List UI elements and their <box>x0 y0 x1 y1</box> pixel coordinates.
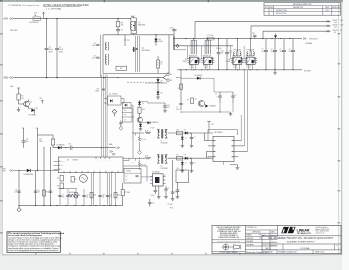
svg-text:C?: C? <box>124 119 126 121</box>
svg-text:22uF: 22uF <box>280 51 283 53</box>
svg-text:T? 750311880: T? 750311880 <box>233 49 242 51</box>
svg-text:C? 1uF: C? 1uF <box>150 128 154 130</box>
svg-text:D?: D? <box>184 129 186 131</box>
svg-text:R8: R8 <box>252 33 254 35</box>
svg-text:4.7uF: 4.7uF <box>59 49 63 51</box>
svg-text:C14: C14 <box>221 51 224 53</box>
svg-text:0.1uF: 0.1uF <box>92 45 96 47</box>
svg-text:C?: C? <box>289 49 291 51</box>
svg-text:R12: R12 <box>78 194 81 196</box>
svg-text:R10: R10 <box>46 191 49 193</box>
svg-text:R6: R6 <box>39 139 41 141</box>
svg-text:10/17: 10/17 <box>325 10 329 12</box>
svg-text:LT8302: LT8302 <box>126 171 131 173</box>
svg-text:LT8302: LT8302 <box>182 61 187 63</box>
svg-text:C7: C7 <box>38 189 40 191</box>
svg-text:SHEET 1 OF 1: SHEET 1 OF 1 <box>315 252 324 254</box>
svg-text:U4: U4 <box>185 59 187 61</box>
svg-text:1uF: 1uF <box>14 192 17 194</box>
svg-text:C? 1uF: C? 1uF <box>190 65 194 67</box>
svg-text:1uF: 1uF <box>221 53 224 55</box>
svg-text:1uF: 1uF <box>167 107 170 109</box>
svg-text:VOUT2: VOUT2 <box>333 25 338 27</box>
svg-text:C14 1uF: C14 1uF <box>216 48 222 50</box>
svg-text:22uF: 22uF <box>271 51 274 53</box>
svg-text:C? 1uF: C? 1uF <box>204 67 208 69</box>
svg-text:R?: R? <box>177 155 179 157</box>
svg-text:U6: U6 <box>228 59 230 61</box>
svg-text:BSC320N20: BSC320N20 <box>142 50 151 52</box>
svg-text:C? 1uF: C? 1uF <box>246 67 250 69</box>
svg-text:10/18/17: 10/18/17 <box>271 241 276 243</box>
svg-text:1uF: 1uF <box>38 192 41 194</box>
svg-text:DWG. NO.: DWG. NO. <box>271 245 278 247</box>
svg-text:PRODUCTION: PRODUCTION <box>276 10 288 12</box>
svg-text:ISOLATED POWER SUPPLY: ISOLATED POWER SUPPLY <box>287 241 316 244</box>
svg-text:C5: C5 <box>175 30 177 32</box>
svg-text:VOUT3: VOUT3 <box>333 30 338 32</box>
svg-text:R11: R11 <box>120 68 123 70</box>
svg-text:PS2801: PS2801 <box>113 93 118 95</box>
svg-text:C?: C? <box>132 162 134 164</box>
svg-text:22uF: 22uF <box>289 51 292 53</box>
svg-text:Z?: Z? <box>185 163 187 165</box>
svg-text:REV: REV <box>336 245 339 247</box>
svg-text:R?: R? <box>187 100 189 102</box>
svg-text:R?: R? <box>126 176 128 178</box>
svg-text:C?: C? <box>132 136 134 138</box>
svg-text:U5: U5 <box>199 59 201 61</box>
svg-text:R7: R7 <box>57 178 59 180</box>
svg-text:CHECKED: CHECKED <box>246 238 253 240</box>
svg-text:C?: C? <box>271 49 273 51</box>
svg-text:+VIN: +VIN <box>3 19 9 21</box>
svg-text:D7: D7 <box>161 80 163 82</box>
svg-text:R? 1k: R? 1k <box>170 208 174 210</box>
svg-text:1uF: 1uF <box>26 141 29 143</box>
svg-text:R? 7.5k: R? 7.5k <box>141 139 146 141</box>
svg-text:R? 10: R? 10 <box>145 130 149 132</box>
svg-text:U7: U7 <box>242 59 244 61</box>
svg-text:C?: C? <box>194 137 196 139</box>
svg-text:2.2uF: 2.2uF <box>169 27 173 29</box>
svg-text:C12: C12 <box>96 88 99 90</box>
svg-text:C?: C? <box>280 49 282 51</box>
svg-text:LT8330: LT8330 <box>226 61 231 63</box>
svg-text:C21: C21 <box>152 202 155 204</box>
svg-text:4.7uF: 4.7uF <box>49 49 53 51</box>
svg-text:C? 1uF: C? 1uF <box>233 67 237 69</box>
svg-text:22uF: 22uF <box>262 51 265 53</box>
svg-text:220pF: 220pF <box>95 91 99 93</box>
svg-text:C? 1uF: C? 1uF <box>204 65 208 67</box>
svg-text:1uF: 1uF <box>62 196 64 198</box>
svg-text:R14: R14 <box>117 194 120 196</box>
svg-text:LT3748: LT3748 <box>73 159 78 161</box>
svg-text:TP2: TP2 <box>127 40 130 42</box>
svg-text:C9: C9 <box>94 55 96 57</box>
svg-text:C3: C3 <box>26 139 28 141</box>
svg-text:C?: C? <box>262 49 264 51</box>
svg-text:Q3: Q3 <box>30 101 32 103</box>
svg-text:R?: R? <box>124 110 126 112</box>
svg-text:C13: C13 <box>167 105 170 107</box>
svg-text:T2: T2 <box>161 141 163 143</box>
svg-text:C10: C10 <box>69 143 72 145</box>
svg-text:U1: U1 <box>67 159 69 161</box>
svg-text:0.1uF: 0.1uF <box>92 58 96 60</box>
svg-text:4.7uF: 4.7uF <box>215 96 218 98</box>
svg-text:R13: R13 <box>93 194 96 196</box>
svg-text:R? 196k: R? 196k <box>125 192 130 194</box>
svg-text:U9: U9 <box>177 168 179 170</box>
svg-text:N/A - POWERED 75W WITH 15V, -1: N/A - POWERED 75W WITH 15V, -15V AND 5V … <box>268 237 334 240</box>
svg-text:TP?: TP? <box>211 124 214 126</box>
svg-text:Z?: Z? <box>185 138 187 140</box>
svg-text:EN/UVLO: EN/UVLO <box>61 161 66 163</box>
svg-text:VOUT4 5V: VOUT4 5V <box>309 38 318 40</box>
svg-text:C17: C17 <box>86 194 89 196</box>
svg-text:R?: R? <box>124 115 126 117</box>
svg-text:C? 1uF: C? 1uF <box>190 67 194 69</box>
svg-text:C2: C2 <box>59 47 61 49</box>
svg-text:C? 10uF: C? 10uF <box>168 204 173 206</box>
svg-text:Phone: (408) 432-1900: Phone: (408) 432-1900 <box>316 231 330 233</box>
svg-text:C16: C16 <box>70 194 73 196</box>
svg-text:E1: E1 <box>170 74 172 76</box>
svg-text:EXT: EXT <box>3 171 6 173</box>
svg-text:C?: C? <box>168 188 170 190</box>
svg-text:VC: VC <box>61 169 63 171</box>
svg-text:T? 750311880: T? 750311880 <box>246 49 255 51</box>
svg-text:R? 10: R? 10 <box>145 156 149 158</box>
svg-text:GND: GND <box>3 78 8 80</box>
svg-text:U2: U2 <box>109 93 111 95</box>
svg-text:C1: C1 <box>49 47 51 49</box>
svg-text:C? 1uF: C? 1uF <box>174 192 178 194</box>
svg-text:0.1uF: 0.1uF <box>176 109 180 111</box>
svg-text:LT8330: LT8330 <box>239 61 244 63</box>
svg-text:R3: R3 <box>121 22 123 24</box>
svg-text:C?: C? <box>126 180 128 182</box>
svg-text:100k: 100k <box>39 141 43 143</box>
svg-text:R2: R2 <box>21 96 23 98</box>
svg-text:C15: C15 <box>229 51 232 53</box>
svg-text:U11 LT8309: U11 LT8309 <box>152 172 160 174</box>
svg-text:www.linear.com: www.linear.com <box>316 233 325 235</box>
svg-text:C?: C? <box>235 95 237 97</box>
svg-text:1uF: 1uF <box>229 53 232 55</box>
svg-text:T3: T3 <box>161 166 163 168</box>
svg-text:UNLESS OTHERWISE SPECIFIED:: UNLESS OTHERWISE SPECIFIED: <box>217 227 242 229</box>
svg-text:E2: E2 <box>170 80 172 82</box>
svg-text:T1: T1 <box>138 22 140 24</box>
svg-text:R?: R? <box>178 88 180 90</box>
svg-text:U8 LTM8067: U8 LTM8067 <box>214 132 223 134</box>
svg-text:LINEAR: LINEAR <box>297 228 310 232</box>
svg-text:Q1: Q1 <box>142 48 144 50</box>
svg-text:Q?: Q? <box>195 99 197 101</box>
svg-text:10: 10 <box>160 63 162 65</box>
svg-text:GND TRN: GND TRN <box>10 30 18 32</box>
svg-text:1: 1 <box>271 10 272 12</box>
svg-text:C?: C? <box>62 194 64 196</box>
svg-text:R15: R15 <box>142 109 145 111</box>
svg-text:C4: C4 <box>121 30 123 32</box>
svg-text:SLOW BLOW: SLOW BLOW <box>29 22 39 24</box>
svg-text:VOUT1: VOUT1 <box>333 20 338 22</box>
svg-text:10k: 10k <box>21 98 24 100</box>
svg-text:C8: C8 <box>94 43 96 45</box>
svg-text:5V RTN: 5V RTN <box>304 71 311 73</box>
svg-text:C?: C? <box>176 107 178 109</box>
svg-text:C?: C? <box>164 175 166 177</box>
svg-text:D?: D? <box>142 103 144 105</box>
svg-text:1. ( ) OPTIONAL: 1. ( ) OPTIONAL <box>46 8 62 11</box>
svg-text:PRODUCTION: PRODUCTION <box>276 13 286 15</box>
svg-text:TECHNOLOGY: TECHNOLOGY <box>297 233 312 235</box>
svg-text:DESCRIPTION: DESCRIPTION <box>293 7 303 9</box>
svg-text:750315838: 750315838 <box>161 143 168 145</box>
svg-text:1uF: 1uF <box>70 196 72 198</box>
svg-text:D5 MBRS1100: D5 MBRS1100 <box>24 174 34 176</box>
svg-text:D?: D? <box>184 155 186 157</box>
svg-text:C? 1uF: C? 1uF <box>150 195 154 197</box>
svg-text:D6: D6 <box>159 39 161 41</box>
svg-text:C6: C6 <box>15 189 17 191</box>
svg-text:C18: C18 <box>102 194 105 196</box>
svg-text:1uF: 1uF <box>86 196 88 198</box>
svg-text:R5: R5 <box>160 61 162 63</box>
svg-text:RFB: RFB <box>61 165 63 167</box>
svg-text:C? 1uF: C? 1uF <box>246 65 250 67</box>
svg-text:R?: R? <box>177 129 179 131</box>
svg-text:R?: R? <box>75 179 77 181</box>
svg-text:C? 1uF: C? 1uF <box>233 65 237 67</box>
svg-text:DC2646A: DC2646A <box>301 247 310 250</box>
svg-text:TP1: TP1 <box>40 98 43 100</box>
svg-text:R8: R8 <box>57 186 59 188</box>
svg-text:SIZE: SIZE <box>263 245 266 247</box>
svg-text:LT8302: LT8302 <box>196 61 201 63</box>
svg-text:L2 4.7uH: L2 4.7uH <box>207 35 213 37</box>
svg-text:D8: D8 <box>161 93 163 95</box>
svg-text:750315838: 750315838 <box>161 168 168 170</box>
svg-text:REV: REV <box>270 7 273 9</box>
svg-text:Q2: Q2 <box>132 117 134 119</box>
svg-text:10k: 10k <box>121 24 124 26</box>
svg-text:1uF: 1uF <box>102 196 104 198</box>
svg-text:D3 GREEN: D3 GREEN <box>29 114 36 116</box>
svg-text:Linear Technology Applications: Linear Technology Applications Engineeri… <box>8 249 59 252</box>
svg-text:C?: C? <box>215 94 217 96</box>
svg-text:C?: C? <box>194 162 196 164</box>
